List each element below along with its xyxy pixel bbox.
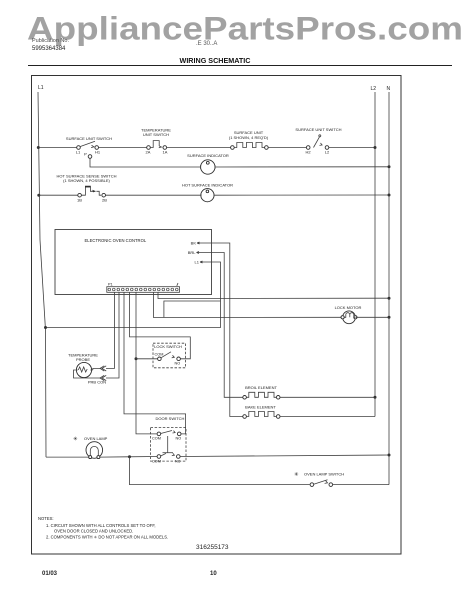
node dot L1 bus feed bbox=[44, 326, 47, 329]
svg-text:2. COMPONENTS WITH ✳ DO NOT: 2. COMPONENTS WITH ✳ DO NOT APPEAR ON AL… bbox=[46, 535, 168, 540]
svg-text:✳: ✳ bbox=[294, 471, 299, 478]
wire junction down to lamp switch row bbox=[130, 457, 310, 485]
node dot N row298 bbox=[388, 297, 391, 300]
svg-text:1A: 1A bbox=[163, 150, 168, 155]
node dot lock COM tap bbox=[135, 357, 138, 360]
wire P branch down bbox=[90, 158, 201, 167]
svg-text:NO: NO bbox=[175, 362, 181, 366]
svg-text:COM: COM bbox=[155, 353, 164, 357]
oven lamp bbox=[86, 442, 103, 459]
svg-text:OVEN LAMP: OVEN LAMP bbox=[84, 436, 108, 441]
wire to L2 bus bbox=[329, 147, 375, 149]
wire indicator to N bbox=[215, 166, 389, 168]
wire EOC aux branch to lock motor row bbox=[164, 301, 221, 317]
wire 2B to indicator bbox=[106, 194, 202, 196]
BK arrow and wire bbox=[197, 242, 201, 244]
surface indicator lamp bbox=[201, 160, 215, 174]
EOC box bbox=[55, 230, 212, 295]
svg-text:OVEN DOOR CLOSED AND UNLOCKED.: OVEN DOOR CLOSED AND UNLOCKED. bbox=[54, 529, 133, 534]
svg-text:Publication No.: Publication No. bbox=[32, 38, 69, 44]
wire lock motor to N bbox=[356, 316, 389, 318]
bake element bbox=[243, 415, 247, 419]
wire NC to N bbox=[180, 455, 389, 457]
surface unit switch L1 terminal bbox=[77, 146, 81, 150]
svg-text:L1: L1 bbox=[195, 260, 200, 265]
right switch blade bbox=[314, 137, 320, 148]
svg-text:COM: COM bbox=[152, 437, 161, 441]
door switch bottom arrow bbox=[172, 453, 175, 455]
hot surface indicator lamp bbox=[201, 189, 214, 202]
wire bake to L2 end bbox=[280, 416, 375, 418]
title underline bbox=[28, 65, 452, 67]
broil element bbox=[243, 396, 247, 400]
temperature unit switch contact bridge bbox=[150, 141, 159, 148]
door switch bottom COM bbox=[157, 455, 161, 459]
svg-text:P1: P1 bbox=[108, 283, 113, 287]
wire H1 to 2A bbox=[99, 147, 147, 149]
wire indicator to N bbox=[214, 194, 389, 196]
svg-text:.E 30..A: .E 30..A bbox=[196, 41, 217, 47]
svg-text:H2: H2 bbox=[305, 150, 311, 155]
svg-text:L2: L2 bbox=[371, 86, 377, 92]
wire strip to lock NO bbox=[130, 292, 191, 359]
svg-text:COM: COM bbox=[152, 459, 161, 463]
svg-text:1B: 1B bbox=[77, 198, 82, 203]
surface unit element left terminal bbox=[231, 146, 235, 150]
svg-text:BAKE ELEMENT: BAKE ELEMENT bbox=[245, 405, 276, 410]
temperature unit switch 2A terminal bbox=[147, 146, 151, 150]
door switch top blade bbox=[161, 431, 172, 434]
wire lamp switch to N corner bbox=[333, 484, 389, 486]
svg-text:NO: NO bbox=[176, 437, 182, 441]
svg-text:LOCK MOTOR: LOCK MOTOR bbox=[335, 305, 362, 310]
svg-text:BRL: BRL bbox=[188, 250, 197, 255]
svg-text:NC: NC bbox=[175, 459, 181, 463]
wire broil to L2 bbox=[280, 396, 375, 398]
svg-text:L1: L1 bbox=[76, 150, 81, 155]
wire L1 to 1B bbox=[39, 194, 78, 196]
door switch top COM bbox=[157, 432, 161, 436]
BRL arrow and wire bbox=[197, 252, 201, 254]
svg-text:L1: L1 bbox=[38, 85, 44, 91]
node dot N/door bbox=[388, 454, 391, 457]
temperature probe bbox=[76, 362, 91, 377]
svg-text:LOCK SWITCH: LOCK SWITCH bbox=[154, 344, 182, 349]
svg-text:✳: ✳ bbox=[73, 436, 78, 443]
N bus bbox=[388, 92, 390, 485]
right switch H2 terminal bbox=[306, 146, 310, 150]
wire strip to lock motor row bbox=[154, 292, 344, 317]
svg-text:ELECTRONIC OVEN CONTROL: ELECTRONIC OVEN CONTROL bbox=[85, 238, 147, 243]
node dot L1/row1 bbox=[37, 146, 40, 149]
schematic frame bbox=[32, 76, 402, 555]
lock switch NO bbox=[177, 357, 181, 361]
contact arrow bbox=[159, 146, 162, 148]
wire 1A to surface unit bbox=[167, 147, 231, 149]
svg-text:H1: H1 bbox=[95, 150, 101, 155]
wire strip to probe top bbox=[106, 292, 115, 368]
sense switch 2B terminal bbox=[102, 193, 106, 197]
door switch bottom blade bbox=[161, 453, 166, 456]
lock switch blade bbox=[161, 352, 171, 358]
node dot N/motor bbox=[388, 316, 391, 319]
sense switch 1B terminal bbox=[78, 193, 82, 197]
svg-text:N: N bbox=[387, 86, 391, 92]
terminal strip bbox=[107, 287, 180, 293]
svg-text:SURFACE UNIT SWITCH: SURFACE UNIT SWITCH bbox=[66, 136, 112, 141]
svg-text:(1 SHOWN, 4 REQ'D): (1 SHOWN, 4 REQ'D) bbox=[229, 135, 269, 140]
probe left loop to bottom wire bbox=[74, 370, 101, 378]
door switch link bbox=[167, 436, 169, 453]
svg-text:10: 10 bbox=[210, 571, 217, 577]
lock switch arrow bbox=[172, 355, 175, 358]
L1 bus bbox=[38, 92, 46, 457]
node dot lamp junction bbox=[128, 455, 131, 458]
svg-text:AppliancePartsPros.com: AppliancePartsPros.com bbox=[27, 11, 463, 47]
svg-text:BK: BK bbox=[191, 241, 197, 246]
svg-text:2B: 2B bbox=[102, 198, 107, 203]
svg-text:WIRING SCHEMATIC: WIRING SCHEMATIC bbox=[180, 56, 251, 65]
prb con connector top bbox=[100, 366, 106, 371]
wire strip to N row (y=298.5) bbox=[158, 292, 389, 298]
door switch box bbox=[151, 428, 187, 462]
svg-text:UNIT SWITCH: UNIT SWITCH bbox=[143, 132, 169, 137]
wire lamp to junction and door COM bbox=[100, 456, 157, 459]
svg-text:P: P bbox=[84, 152, 87, 157]
node dot N/row2 bbox=[388, 165, 391, 168]
right switch L2 terminal bbox=[325, 146, 329, 150]
svg-text:01/03: 01/03 bbox=[42, 571, 58, 577]
door switch bottom NC bbox=[177, 455, 181, 459]
right switch arrow bbox=[320, 143, 323, 145]
L2 bus bbox=[374, 92, 376, 417]
probe right wire bbox=[93, 368, 100, 370]
svg-text:316255173: 316255173 bbox=[196, 544, 229, 551]
wire element to right switch bbox=[268, 147, 306, 149]
switch blade bbox=[80, 141, 95, 146]
svg-text:PROBE: PROBE bbox=[76, 357, 90, 362]
svg-text:PRB CON: PRB CON bbox=[88, 380, 106, 385]
svg-text:2A: 2A bbox=[146, 150, 151, 155]
pin1 tick bbox=[177, 283, 178, 286]
oven lamp switch bbox=[310, 483, 314, 487]
wire L1 to switch bbox=[38, 147, 76, 149]
node dot L2/row1 bbox=[374, 146, 377, 149]
svg-text:HOT SURFACE INDICATOR: HOT SURFACE INDICATOR bbox=[182, 183, 233, 188]
surface unit switch H1 terminal bbox=[95, 146, 99, 150]
L1 arrow and wire bbox=[200, 261, 204, 263]
lock switch box bbox=[153, 343, 186, 368]
node dot N/row3 bbox=[388, 194, 391, 197]
sense switch contact bbox=[81, 187, 85, 196]
svg-text:5995364384: 5995364384 bbox=[32, 46, 66, 52]
wire strip to door NO bbox=[124, 292, 186, 434]
L1 corner to lamp row bbox=[46, 456, 89, 458]
wire strip to lock COM / door COM bbox=[136, 292, 157, 434]
temperature unit switch 1A terminal bbox=[163, 146, 167, 150]
svg-text:(1 SHOWN, 4 POSSIBLE): (1 SHOWN, 4 POSSIBLE) bbox=[63, 178, 110, 183]
surface unit element right terminal bbox=[265, 146, 269, 150]
surface unit heating element bbox=[234, 143, 264, 148]
node dot L1/row3 bbox=[37, 194, 40, 197]
svg-text:1. CIRCUIT SHOWN WITH ALL CON: 1. CIRCUIT SHOWN WITH ALL CONTROLS SET T… bbox=[46, 523, 156, 528]
lock motor bbox=[343, 311, 356, 324]
wire strip to probe bottom bbox=[106, 292, 119, 378]
svg-text:NOTES:: NOTES: bbox=[38, 516, 54, 521]
svg-text:SURFACE UNIT SWITCH: SURFACE UNIT SWITCH bbox=[295, 127, 341, 132]
svg-text:BROIL ELEMENT: BROIL ELEMENT bbox=[245, 385, 277, 390]
door switch top NO bbox=[177, 432, 181, 436]
svg-text:DOOR SWITCH: DOOR SWITCH bbox=[156, 416, 185, 421]
svg-text:OVEN LAMP SWITCH: OVEN LAMP SWITCH bbox=[304, 472, 344, 477]
svg-text:SURFACE INDICATOR: SURFACE INDICATOR bbox=[187, 153, 229, 158]
svg-text:L2: L2 bbox=[325, 150, 330, 155]
surface unit switch P terminal bbox=[88, 155, 92, 159]
prb con connector bottom bbox=[100, 375, 106, 380]
node dot L2/broil bbox=[374, 396, 377, 399]
switch arrow bbox=[91, 145, 94, 147]
